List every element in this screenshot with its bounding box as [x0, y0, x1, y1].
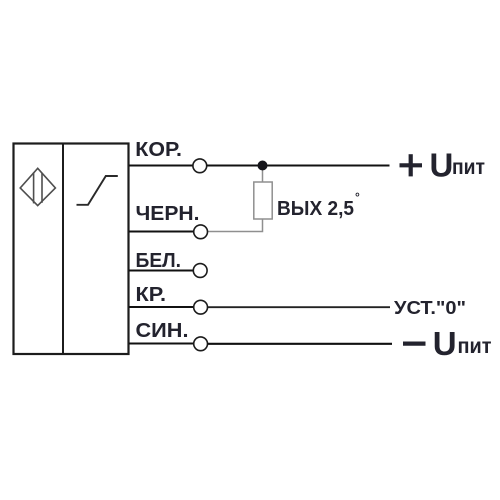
svg-text:U: U: [433, 325, 457, 362]
svg-text:СИН.: СИН.: [136, 320, 189, 342]
svg-text:°: °: [355, 190, 360, 204]
svg-text:БЕЛ.: БЕЛ.: [136, 250, 182, 272]
svg-text:пит: пит: [452, 156, 485, 179]
svg-text:ВЫХ 2,5: ВЫХ 2,5: [277, 198, 354, 220]
svg-text:КР.: КР.: [136, 284, 167, 306]
svg-text:U: U: [430, 146, 454, 183]
svg-text:ЧЕРН.: ЧЕРН.: [136, 203, 200, 225]
svg-text:УСТ."0": УСТ."0": [394, 298, 466, 318]
svg-text:КОР.: КОР.: [135, 139, 182, 161]
svg-text:пит: пит: [458, 335, 492, 358]
